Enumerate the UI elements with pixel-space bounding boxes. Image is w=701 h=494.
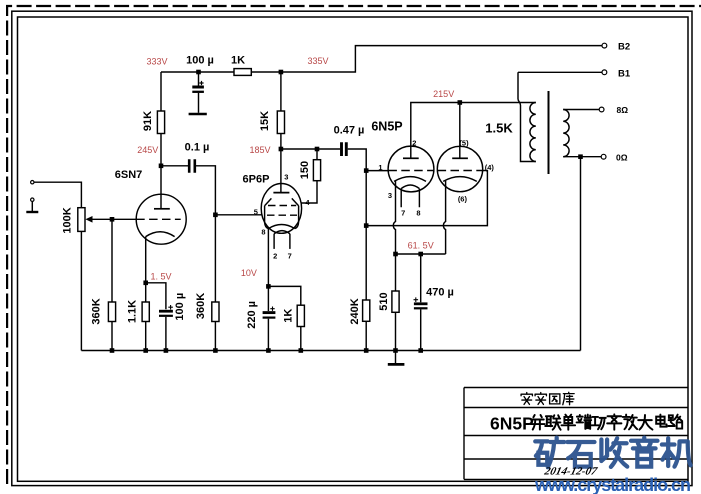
ground: below 100u filter cap xyxy=(189,113,207,116)
wire: 6N5P #1 cathode lead with hop over grid rail xyxy=(393,181,395,254)
svg-text:470 µ: 470 µ xyxy=(426,287,454,299)
terminal: B2 xyxy=(602,43,607,48)
capacitor 100u filter (electrolytic) xyxy=(192,81,204,92)
svg-text:6SN7: 6SN7 xyxy=(115,169,143,181)
node: 6N5P grid pin1 tap xyxy=(364,168,369,173)
wire: grid rail to 6N5P pin 4 of second tube xyxy=(366,171,487,226)
wire: ground stub below 510 xyxy=(395,351,397,364)
wire: 185V rail to 0.47u xyxy=(281,148,340,150)
node: 1.5V cathode xyxy=(143,281,148,286)
capacitor 0.1u coupling xyxy=(189,159,195,173)
svg-text:185V: 185V xyxy=(249,145,270,155)
svg-text:6P6P: 6P6P xyxy=(243,174,270,186)
wire: B+ top rail 333V/335V to B2 xyxy=(161,46,602,72)
wire: 91K top xyxy=(160,72,162,111)
node: 150 top junction xyxy=(315,147,320,152)
wire: 0.47u right to 6N5P grid line xyxy=(348,149,367,171)
node: 6N5P grid rail tap xyxy=(364,223,369,228)
node: 10V cathode xyxy=(266,284,271,289)
wire: 240K bottom to bus xyxy=(365,321,367,350)
svg-text:3: 3 xyxy=(388,191,392,200)
svg-text:360K: 360K xyxy=(91,298,103,324)
svg-text:2: 2 xyxy=(273,251,277,260)
resistor 150 xyxy=(313,160,320,181)
tube V4 6N5P #2 xyxy=(437,146,482,191)
svg-text:245V: 245V xyxy=(137,145,158,155)
svg-text:0Ω: 0Ω xyxy=(616,153,628,163)
resistor 1K (B+ dropper) xyxy=(234,69,251,76)
wire: pot wiper to 6SN7 grid xyxy=(92,218,137,220)
wire: 15K top xyxy=(280,72,282,111)
node: 61.5V 470u junction xyxy=(418,252,423,257)
node: pot wiper / 360K xyxy=(110,217,115,222)
capacitor 470u cathode (electrolytic) xyxy=(414,297,428,308)
node: bus 240K xyxy=(364,348,369,353)
node: bus 470u xyxy=(418,348,423,353)
node: 100u tap on B+ rail xyxy=(196,70,201,75)
resistor 1.1K xyxy=(142,302,149,322)
wire: 10V node to 1K cathode resistor xyxy=(268,286,300,305)
svg-text:150: 150 xyxy=(299,161,311,179)
node: bus 510 / ground xyxy=(393,348,398,353)
wire: 220u bottom to bus xyxy=(267,319,269,351)
wire: 1K cathode resistor bottom to bus xyxy=(300,327,302,351)
svg-text:1: 1 xyxy=(378,163,382,172)
wire: 360K grid resistor (6P6P) bottom xyxy=(214,322,216,351)
wire: 100u cathode cap bottom to bus xyxy=(165,317,167,351)
svg-text:3: 3 xyxy=(284,173,288,182)
resistor 91K xyxy=(157,111,164,134)
wire: 6N5P #2 plate lead xyxy=(459,103,461,159)
wire: 470u top xyxy=(420,254,422,302)
svg-text:7: 7 xyxy=(288,251,292,260)
wire: 6N5P grid feed vertical xyxy=(365,171,367,300)
transformer core xyxy=(548,91,550,174)
node: bus 220u xyxy=(266,348,271,353)
wire: 15K bottom to 185V node to 6P6P plate xyxy=(280,134,282,193)
svg-text:10V: 10V xyxy=(241,268,257,278)
node: 245V xyxy=(159,164,164,169)
wire: 1.5V node to 100u cathode cap xyxy=(146,283,166,310)
wire: 0.1u coupling from 245V node xyxy=(161,165,189,167)
wire: B1 lead from transformer to B1 terminal xyxy=(518,71,602,73)
node: bus 360K input xyxy=(110,348,115,353)
title row1: AnAn library (4 CJK chars) xyxy=(521,392,574,404)
svg-text:5: 5 xyxy=(254,208,258,217)
wire: 0.1u to 6P6P grid pin 5 xyxy=(195,166,262,215)
svg-text:100K: 100K xyxy=(61,207,73,233)
terminal: input signal xyxy=(31,181,34,184)
svg-text:2: 2 xyxy=(412,138,416,147)
wire: 470u bottom to bus xyxy=(420,309,422,350)
svg-text:360K: 360K xyxy=(195,293,207,319)
svg-text:15K: 15K xyxy=(259,111,271,131)
svg-text:8Ω: 8Ω xyxy=(617,105,629,115)
wire: 6SN7 cathode down to 1.5V node xyxy=(145,237,147,302)
ground: below 510 resistor xyxy=(388,363,405,366)
wire: 100u filter cap top xyxy=(198,72,200,86)
svg-text:www.crystalradio.cn: www.crystalradio.cn xyxy=(534,475,691,494)
svg-text:1K: 1K xyxy=(231,55,245,67)
svg-text:100 µ: 100 µ xyxy=(174,293,186,321)
wire: grid to 6N5P pin 1 xyxy=(366,170,389,172)
svg-text:510: 510 xyxy=(378,292,390,310)
wire: input jack to 100K pot top xyxy=(34,182,81,208)
potentiometer 100K wiper arrow xyxy=(85,216,92,223)
wire: 150 top xyxy=(316,149,318,160)
wire: 360K grid resistor (6P6P) top xyxy=(214,215,216,302)
svg-text:(6): (6) xyxy=(458,195,468,204)
wire: secondary top lead to 8 ohm xyxy=(563,109,599,111)
wire: 6P6P heater pin 7 xyxy=(289,234,291,249)
svg-text:100 µ: 100 µ xyxy=(186,55,214,67)
tube V2 6P6P xyxy=(261,184,301,234)
wire: 6P6P cathode lead down xyxy=(267,229,269,311)
node: bus 1.1K xyxy=(143,348,148,353)
wire: 360K input resistor bottom xyxy=(111,322,113,351)
wire: 510 bottom to bus xyxy=(395,312,397,350)
svg-text:8: 8 xyxy=(416,209,420,218)
node: 6P6P grid / 360K xyxy=(213,213,218,218)
wire: 100K pot bottom down to ground bus xyxy=(80,231,82,350)
capacitor 220u cathode (electrolytic) xyxy=(263,307,276,318)
tube V1 6SN7 xyxy=(136,194,186,244)
svg-text:240K: 240K xyxy=(349,298,361,324)
node: 15K top on B+ rail xyxy=(279,70,284,75)
svg-text:0.47 µ: 0.47 µ xyxy=(334,125,365,137)
node: bus 100u cathode xyxy=(164,348,169,353)
capacitor 100u cathode (electrolytic) xyxy=(159,305,173,316)
resistor 1K cathode xyxy=(297,305,304,326)
terminal: input ground xyxy=(31,198,34,201)
svg-text:333V: 333V xyxy=(146,57,167,67)
svg-text:8: 8 xyxy=(261,228,265,237)
potentiometer 100K body xyxy=(78,208,85,232)
wire: 100u filter cap bottom to ground xyxy=(198,93,200,113)
wire: input ground terminal stub xyxy=(31,202,33,211)
resistor 15K xyxy=(277,111,284,134)
wire: 510 top xyxy=(395,254,397,291)
svg-text:1. 5V: 1. 5V xyxy=(150,271,171,281)
resistor 510 xyxy=(392,291,399,312)
node: 185V xyxy=(279,147,284,152)
terminal: B1 xyxy=(602,70,607,75)
svg-text:(5): (5) xyxy=(459,138,469,147)
capacitor 0.47u coupling xyxy=(342,142,347,156)
svg-text:B2: B2 xyxy=(618,42,630,53)
wire: 6P6P heater pin 2 xyxy=(273,234,275,249)
svg-text:1.1K: 1.1K xyxy=(126,300,138,323)
wire: ground bus xyxy=(81,350,580,352)
svg-text:1.5K: 1.5K xyxy=(485,121,513,136)
svg-text:335V: 335V xyxy=(307,56,328,66)
wire: 150 bottom to 6P6P pin 4 xyxy=(301,181,317,203)
watermark: Crystal Radio (5 big CJK chars) xyxy=(535,438,690,468)
resistor 360K grid xyxy=(212,302,219,322)
transformer secondary winding xyxy=(563,110,569,157)
tube V3 6N5P #1 xyxy=(388,146,434,192)
wire: secondary bottom lead to 0 ohm xyxy=(563,156,601,158)
node: bus 360K grid xyxy=(213,348,218,353)
terminal: 0 ohm xyxy=(601,154,606,159)
node: bus 1K xyxy=(299,348,304,353)
svg-text:(4): (4) xyxy=(485,163,495,172)
wire: 6N5P #2 cathode lead with hop over grid rail xyxy=(443,181,445,254)
wire: 0 ohm return down to ground bus xyxy=(580,157,582,351)
node: 6N5P #2 plate tap on 215V rail xyxy=(458,100,463,105)
node: 0 ohm junction xyxy=(578,154,583,159)
wire: B1 drop to primary bottom with hop over 215V rail xyxy=(518,72,536,161)
node: 61.5V left junction xyxy=(393,252,398,257)
wire: 61.5V cathode rail xyxy=(396,253,446,255)
svg-text:6N5P: 6N5P xyxy=(371,120,402,134)
terminal: 8 ohm xyxy=(599,107,604,112)
resistor 360K input xyxy=(108,302,115,322)
svg-text:7: 7 xyxy=(401,209,405,218)
wire: 360K input resistor top xyxy=(111,219,113,302)
svg-text:61. 5V: 61. 5V xyxy=(408,240,434,250)
svg-text:220 µ: 220 µ xyxy=(246,301,258,329)
resistor 240K xyxy=(363,300,370,321)
svg-text:91K: 91K xyxy=(142,111,154,131)
svg-text:B1: B1 xyxy=(618,68,631,79)
transformer primary winding xyxy=(530,103,536,162)
ground: input terminal xyxy=(26,211,38,213)
svg-text:0.1 µ: 0.1 µ xyxy=(185,142,210,154)
svg-text:215V: 215V xyxy=(433,89,454,99)
wire: 1.1K bottom to ground bus xyxy=(145,322,147,351)
wire: 215V plate rail xyxy=(411,103,536,159)
wire: 6N5P #1 heater pins 7,8 xyxy=(401,189,419,208)
wire: 91K bottom to 245V node to 6SN7 plate xyxy=(160,134,162,209)
svg-text:6N5P: 6N5P xyxy=(490,414,534,434)
svg-text:1K: 1K xyxy=(282,309,294,323)
